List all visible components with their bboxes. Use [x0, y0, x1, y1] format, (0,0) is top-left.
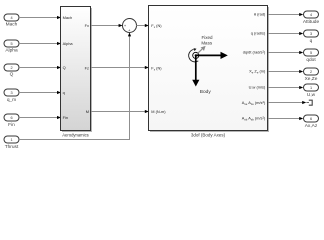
block Aerodynamics: [61, 7, 93, 138]
svg-text:Q: Q: [10, 72, 14, 78]
icon Fixed Mass text: [201, 35, 213, 46]
wire sum to Fx input: [136, 24, 149, 27]
svg-text:Mach: Mach: [63, 15, 73, 20]
wire Fin: [19, 116, 61, 119]
svg-text:Fin: Fin: [63, 115, 68, 120]
outport 6 Ax,Az: [304, 115, 319, 129]
svg-text:2: 2: [310, 70, 312, 74]
outport 3 q: [304, 30, 319, 44]
svg-text:U,w (m/s): U,w (m/s): [249, 85, 266, 90]
svg-text:Mass: Mass: [201, 41, 213, 46]
icon Body label: [200, 89, 212, 95]
svg-text:Alpha: Alpha: [5, 47, 18, 53]
svg-text:3dof (Body Axes): 3dof (Body Axes): [191, 132, 226, 137]
inport 1 Thrust: [4, 136, 19, 150]
svg-text:Fin: Fin: [8, 122, 15, 128]
wire Axe Aze out: [268, 101, 306, 104]
wire q out: [268, 32, 303, 35]
svg-text:4: 4: [10, 16, 12, 20]
svg-text:θ (rad): θ (rad): [254, 12, 266, 17]
outport 1 U,w: [304, 84, 319, 98]
wire qdot out: [268, 51, 303, 54]
outport 5 qdot: [304, 49, 319, 63]
wire Thrust: [19, 32, 131, 139]
wire XeZe out: [268, 70, 303, 73]
svg-text:q (rad/s): q (rad/s): [251, 31, 266, 36]
wire Q: [19, 66, 61, 69]
svg-text:1: 1: [310, 86, 312, 90]
svg-text:3: 3: [310, 32, 312, 36]
svg-text:q_m: q_m: [7, 98, 16, 103]
svg-text:Fx: Fx: [85, 23, 89, 28]
inport 6 Fin: [4, 114, 19, 128]
svg-text:Ax,Az: Ax,Az: [305, 123, 318, 129]
svg-text:q: q: [310, 39, 313, 44]
svg-text:M (N-m): M (N-m): [151, 109, 166, 114]
sum block: [123, 19, 137, 33]
svg-text:Aerodynamics: Aerodynamics: [62, 132, 89, 137]
svg-text:Body: Body: [200, 89, 212, 95]
icon x-axis arrow: [196, 52, 228, 59]
outport 4 Attitude: [303, 11, 320, 25]
svg-text:Thrust: Thrust: [5, 144, 19, 150]
wire Uw out: [268, 86, 303, 89]
svg-text:U,w: U,w: [307, 92, 316, 98]
inport 5 Alpha: [4, 40, 19, 53]
svg-text:3: 3: [10, 91, 12, 95]
terminator: [306, 100, 312, 105]
icon CG circle: [193, 52, 199, 58]
svg-text:4: 4: [310, 13, 312, 17]
wire Ax Az out: [268, 117, 303, 120]
svg-text:2: 2: [10, 66, 12, 70]
3dof output labels: [242, 12, 266, 122]
svg-text:5: 5: [10, 42, 12, 46]
icon velocity arrow: [197, 46, 206, 54]
inport 3 q_m: [4, 89, 19, 103]
inport 4 Mach: [4, 14, 19, 28]
svg-text:6: 6: [310, 117, 312, 121]
wire Fz: [91, 66, 149, 69]
outport 2 Xe,Ze: [304, 68, 319, 82]
svg-text:1: 1: [10, 138, 12, 142]
wire M: [91, 110, 149, 113]
svg-text:Fixed: Fixed: [201, 35, 213, 40]
wire Fx to sum: [91, 24, 123, 27]
block 3dof (Body Axes): [149, 6, 270, 138]
wire theta out: [268, 13, 303, 16]
icon z-axis arrow: [192, 55, 199, 86]
3dof input labels: [151, 23, 166, 114]
svg-text:qdot: qdot: [306, 57, 316, 63]
svg-text:Xe,Ze: Xe,Ze: [305, 76, 318, 82]
svg-text:q: q: [63, 90, 65, 95]
svg-text:Mach: Mach: [6, 22, 18, 28]
svg-text:M: M: [86, 109, 89, 114]
wire Alpha: [19, 42, 61, 45]
svg-text:Alpha: Alpha: [63, 41, 74, 46]
svg-text:Fz: Fz: [85, 65, 89, 70]
svg-text:Q: Q: [63, 65, 66, 70]
svg-text:Attitude: Attitude: [303, 19, 320, 25]
inport 2 Q: [4, 64, 19, 78]
wire Mach: [19, 16, 61, 19]
svg-text:5: 5: [310, 51, 312, 55]
svg-text:6: 6: [10, 116, 12, 120]
icon pitch arc: [189, 48, 199, 62]
wire q_m: [19, 91, 61, 94]
